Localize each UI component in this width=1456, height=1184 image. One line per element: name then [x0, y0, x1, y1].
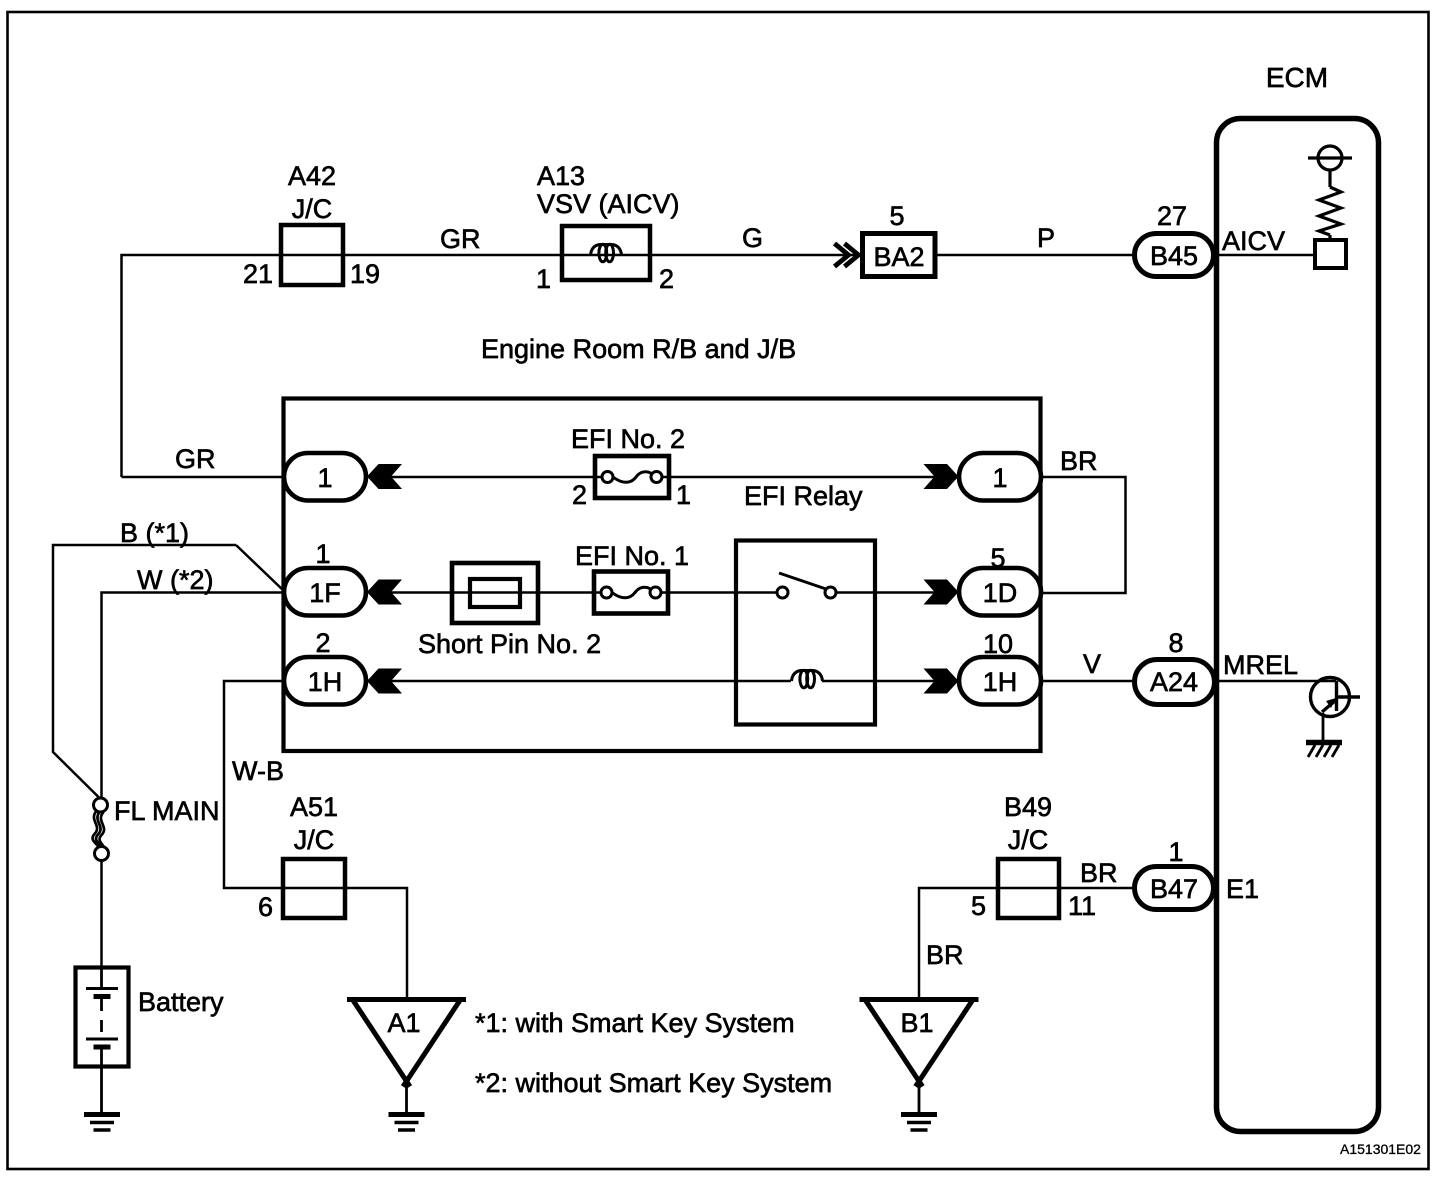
row1 wires — [53, 477, 1336, 997]
svg-text:B49: B49 — [1004, 792, 1052, 822]
svg-text:EFI No. 1: EFI No. 1 — [575, 541, 689, 571]
svg-text:GR: GR — [440, 224, 481, 254]
arrow into 1H left — [367, 669, 402, 694]
driver square (AICV) — [1315, 240, 1346, 268]
connector oval 1D — [959, 568, 1041, 616]
ground triangle A1 — [347, 998, 466, 1087]
svg-text:1H: 1H — [983, 667, 1018, 697]
svg-text:B47: B47 — [1150, 874, 1198, 904]
wire GR net: top horizontal through A42 and VSV to chevron — [122, 255, 861, 477]
wire MREL: A24 to transistor — [1217, 680, 1336, 683]
connector oval A24 — [1135, 660, 1215, 705]
svg-text:V: V — [1083, 649, 1101, 679]
svg-text:2: 2 — [315, 628, 330, 658]
svg-text:EFI Relay: EFI Relay — [744, 481, 863, 511]
svg-text:A13: A13 — [537, 161, 585, 191]
svg-text:2: 2 — [659, 264, 674, 294]
svg-text:1F: 1F — [309, 578, 341, 608]
wire through A51 to A1 ground — [346, 888, 407, 997]
svg-text:J/C: J/C — [294, 825, 335, 855]
svg-text:27: 27 — [1157, 201, 1187, 231]
ground triangle B1 — [860, 998, 979, 1087]
connector oval 1 (row1 right) — [959, 453, 1041, 501]
arrow into 1F — [367, 580, 402, 605]
FL MAIN fusible link squiggle — [93, 811, 104, 849]
svg-text:5: 5 — [971, 891, 986, 921]
wire BA2 to B45 (P) — [937, 254, 1134, 257]
wire row3 1H to coil and 1H right — [391, 680, 791, 683]
connector B45 oval — [1135, 234, 1214, 277]
wire fuse EFI No.1 to relay — [669, 591, 736, 594]
svg-text:19: 19 — [350, 259, 380, 289]
FL MAIN bottom circle — [95, 847, 109, 861]
svg-text:J/C: J/C — [1008, 825, 1049, 855]
svg-text:1: 1 — [992, 463, 1007, 493]
connector oval B47 — [1135, 867, 1214, 910]
wire diagonal B to 1F — [236, 545, 284, 591]
svg-text:MREL: MREL — [1223, 650, 1298, 680]
svg-text:EFI No. 2: EFI No. 2 — [571, 424, 685, 454]
svg-text:A42: A42 — [288, 161, 336, 191]
junction B49 J/C box — [998, 859, 1059, 918]
svg-text:*2: without Smart Key System: *2: without Smart Key System — [475, 1068, 832, 1098]
svg-text:10: 10 — [983, 629, 1013, 659]
svg-text:VSV (AICV): VSV (AICV) — [537, 189, 680, 219]
connector BA2 box — [863, 234, 936, 277]
wire fuse EFI No.2 to right arrow — [669, 476, 935, 479]
wire resistor to driver square — [1328, 235, 1331, 240]
arrow into 1D — [924, 580, 959, 605]
wire 1F arrow to short pin — [391, 591, 452, 594]
earth ground (A1) — [389, 1112, 425, 1117]
svg-text:GR: GR — [175, 444, 216, 474]
svg-text:AICV: AICV — [1222, 226, 1285, 256]
earth ground (battery) — [84, 1112, 120, 1117]
svg-text:11: 11 — [1068, 891, 1096, 921]
svg-text:1: 1 — [536, 264, 551, 294]
svg-text:A24: A24 — [1150, 667, 1198, 697]
svg-text:A151301E02: A151301E02 — [1340, 1141, 1421, 1157]
battery box — [76, 968, 129, 1067]
arrow into oval 1 left — [367, 464, 402, 489]
svg-text:1: 1 — [317, 463, 332, 493]
svg-text:1D: 1D — [983, 578, 1018, 608]
svg-text:BR: BR — [1080, 858, 1118, 888]
svg-text:8: 8 — [1168, 628, 1183, 658]
VSV A13 box (body) — [562, 226, 650, 280]
chassis ground (MREL) — [1306, 740, 1342, 746]
earth ground (B1) — [901, 1112, 937, 1117]
ECM box — [1217, 119, 1379, 1132]
svg-text:2: 2 — [572, 480, 587, 510]
svg-text:B (*1): B (*1) — [120, 518, 189, 548]
short pin no.2 inner box — [470, 579, 520, 607]
svg-text:B1: B1 — [900, 1008, 933, 1038]
resistor (AICV pull-up) — [1319, 187, 1341, 235]
fuse EFI No. 1 — [594, 572, 668, 614]
pull-up supply port circle — [1308, 146, 1352, 187]
short pin no.2 outer box — [452, 563, 538, 623]
wire transistor emitter to ground — [1322, 713, 1325, 741]
Engine Room R/B and J/B box — [284, 399, 1041, 752]
svg-text:E1: E1 — [1226, 874, 1259, 904]
svg-text:BR: BR — [926, 940, 964, 970]
svg-text:A51: A51 — [290, 792, 338, 822]
svg-text:ECM: ECM — [1266, 62, 1328, 93]
svg-text:6: 6 — [258, 892, 273, 922]
connector oval 1H (right) — [959, 657, 1041, 705]
wire GR into J/B row1 — [122, 476, 286, 479]
svg-text:P: P — [1037, 223, 1055, 253]
FL MAIN top circle — [94, 798, 108, 812]
transistor (MREL driver) — [1311, 678, 1361, 717]
wire 1D to arrow — [877, 591, 935, 594]
connector oval 1H (left) — [284, 657, 366, 705]
svg-text:Battery: Battery — [138, 987, 224, 1017]
svg-text:1: 1 — [315, 539, 330, 569]
fuse EFI No. 2 — [595, 456, 669, 498]
wire arrow to fuse EFI No.2 — [391, 476, 595, 479]
wire short pin to fuse EFI No.1 — [540, 591, 594, 594]
wire through short pin — [452, 591, 540, 594]
junction A51 J/C box — [283, 859, 345, 918]
connector oval 1F — [284, 568, 366, 616]
wire V: 1H right to A24 — [1041, 680, 1134, 683]
connector oval 1 (row1 left) — [284, 453, 366, 501]
svg-text:G: G — [742, 223, 763, 253]
wire BR: right oval 1 to 1D (U route) — [1041, 477, 1126, 593]
svg-text:FL MAIN: FL MAIN — [114, 796, 220, 826]
wire B wire (*1) — [53, 545, 236, 798]
wire W wire (*2) — [102, 593, 285, 799]
wire BR: B1 up to B49 — [919, 888, 997, 997]
wire B49 to B47 — [1060, 887, 1134, 890]
svg-text:*1: with Smart Key System: *1: with Smart Key System — [475, 1008, 795, 1038]
relay switch blade — [779, 573, 826, 589]
wire relay switch segment — [736, 591, 777, 594]
svg-text:Engine Room R/B and J/B: Engine Room R/B and J/B — [481, 334, 796, 364]
svg-text:Short Pin No. 2: Short Pin No. 2 — [418, 629, 601, 659]
svg-text:BA2: BA2 — [873, 242, 924, 272]
svg-text:1: 1 — [676, 480, 691, 510]
chevron connector arrows — [835, 244, 859, 267]
svg-text:1: 1 — [1168, 837, 1183, 867]
wire A1 to ground — [405, 1083, 408, 1112]
svg-text:B45: B45 — [1150, 241, 1198, 271]
svg-text:W (*2): W (*2) — [137, 565, 214, 595]
svg-text:W-B: W-B — [232, 756, 284, 786]
svg-text:1H: 1H — [308, 667, 343, 697]
svg-text:5: 5 — [990, 543, 1005, 573]
relay coil — [792, 670, 823, 688]
svg-text:21: 21 — [243, 259, 273, 289]
coil VSV — [591, 244, 622, 262]
relay switch contact right — [825, 587, 836, 598]
svg-text:5: 5 — [889, 201, 904, 231]
junction A42 J/C box — [281, 225, 343, 285]
svg-text:J/C: J/C — [292, 194, 333, 224]
svg-text:BR: BR — [1060, 446, 1098, 476]
relay switch contact left — [777, 587, 788, 598]
arrow into oval 1 right — [924, 464, 959, 489]
wire B1 to ground — [918, 1083, 921, 1112]
svg-text:A1: A1 — [387, 1008, 420, 1038]
battery internals — [100, 966, 103, 987]
wire FL MAIN to battery — [100, 861, 103, 967]
wire B45 to AICV square — [1216, 254, 1316, 257]
wire W-B: 1H left down to A51 — [224, 681, 284, 888]
relay box — [736, 541, 875, 725]
wire relay contact to relay box right — [836, 591, 877, 594]
arrow into 1H right — [924, 669, 959, 694]
